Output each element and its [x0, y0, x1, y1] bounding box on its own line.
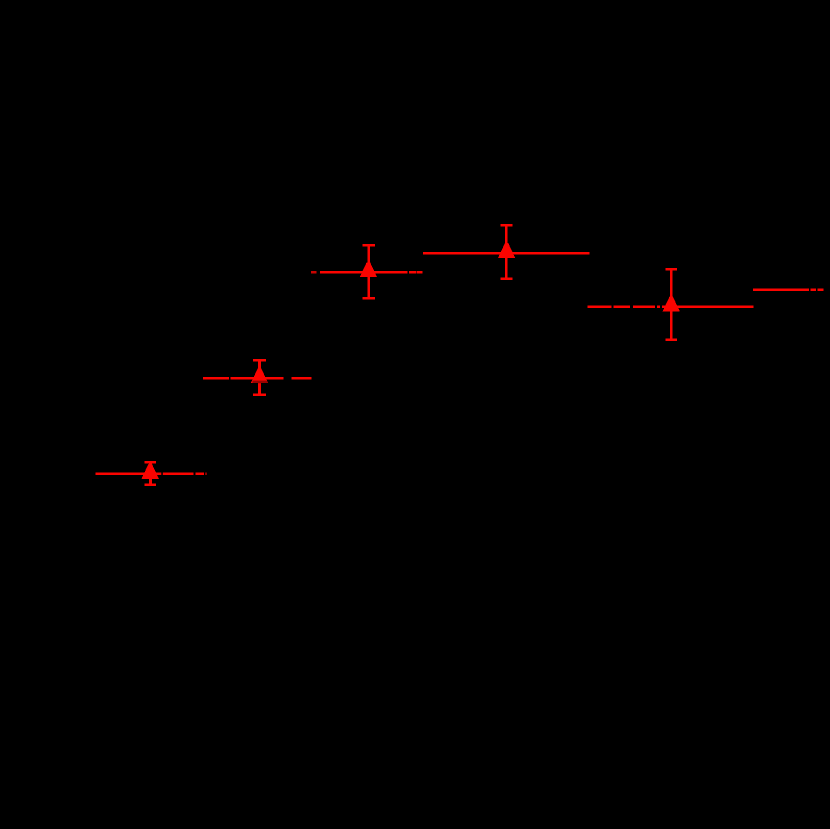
data point 3 x error bar — [311, 271, 422, 274]
data point 5 triangle marker — [663, 297, 680, 312]
data point 4 triangle marker — [498, 243, 515, 258]
data point 1 x error bar — [95, 473, 207, 476]
data point 4 y error bar — [500, 224, 512, 280]
data point 2 y error bar — [253, 359, 266, 396]
data point 5 x error bar — [588, 305, 754, 308]
data point 4 x error bar — [423, 252, 589, 255]
data point 1 triangle marker — [142, 464, 159, 479]
overlay smear on point 2 — [253, 381, 272, 384]
data point 3 y error bar — [363, 244, 376, 299]
data point 5 y error bar — [665, 268, 677, 341]
data point 2 x error bar — [203, 377, 311, 380]
overlay gap on point 1 bar — [161, 472, 163, 475]
data point 1 y error bar — [144, 461, 156, 486]
data point 2 triangle marker — [251, 368, 268, 383]
bin 6 x segment — [753, 289, 823, 292]
data point 3 triangle marker — [360, 262, 377, 277]
